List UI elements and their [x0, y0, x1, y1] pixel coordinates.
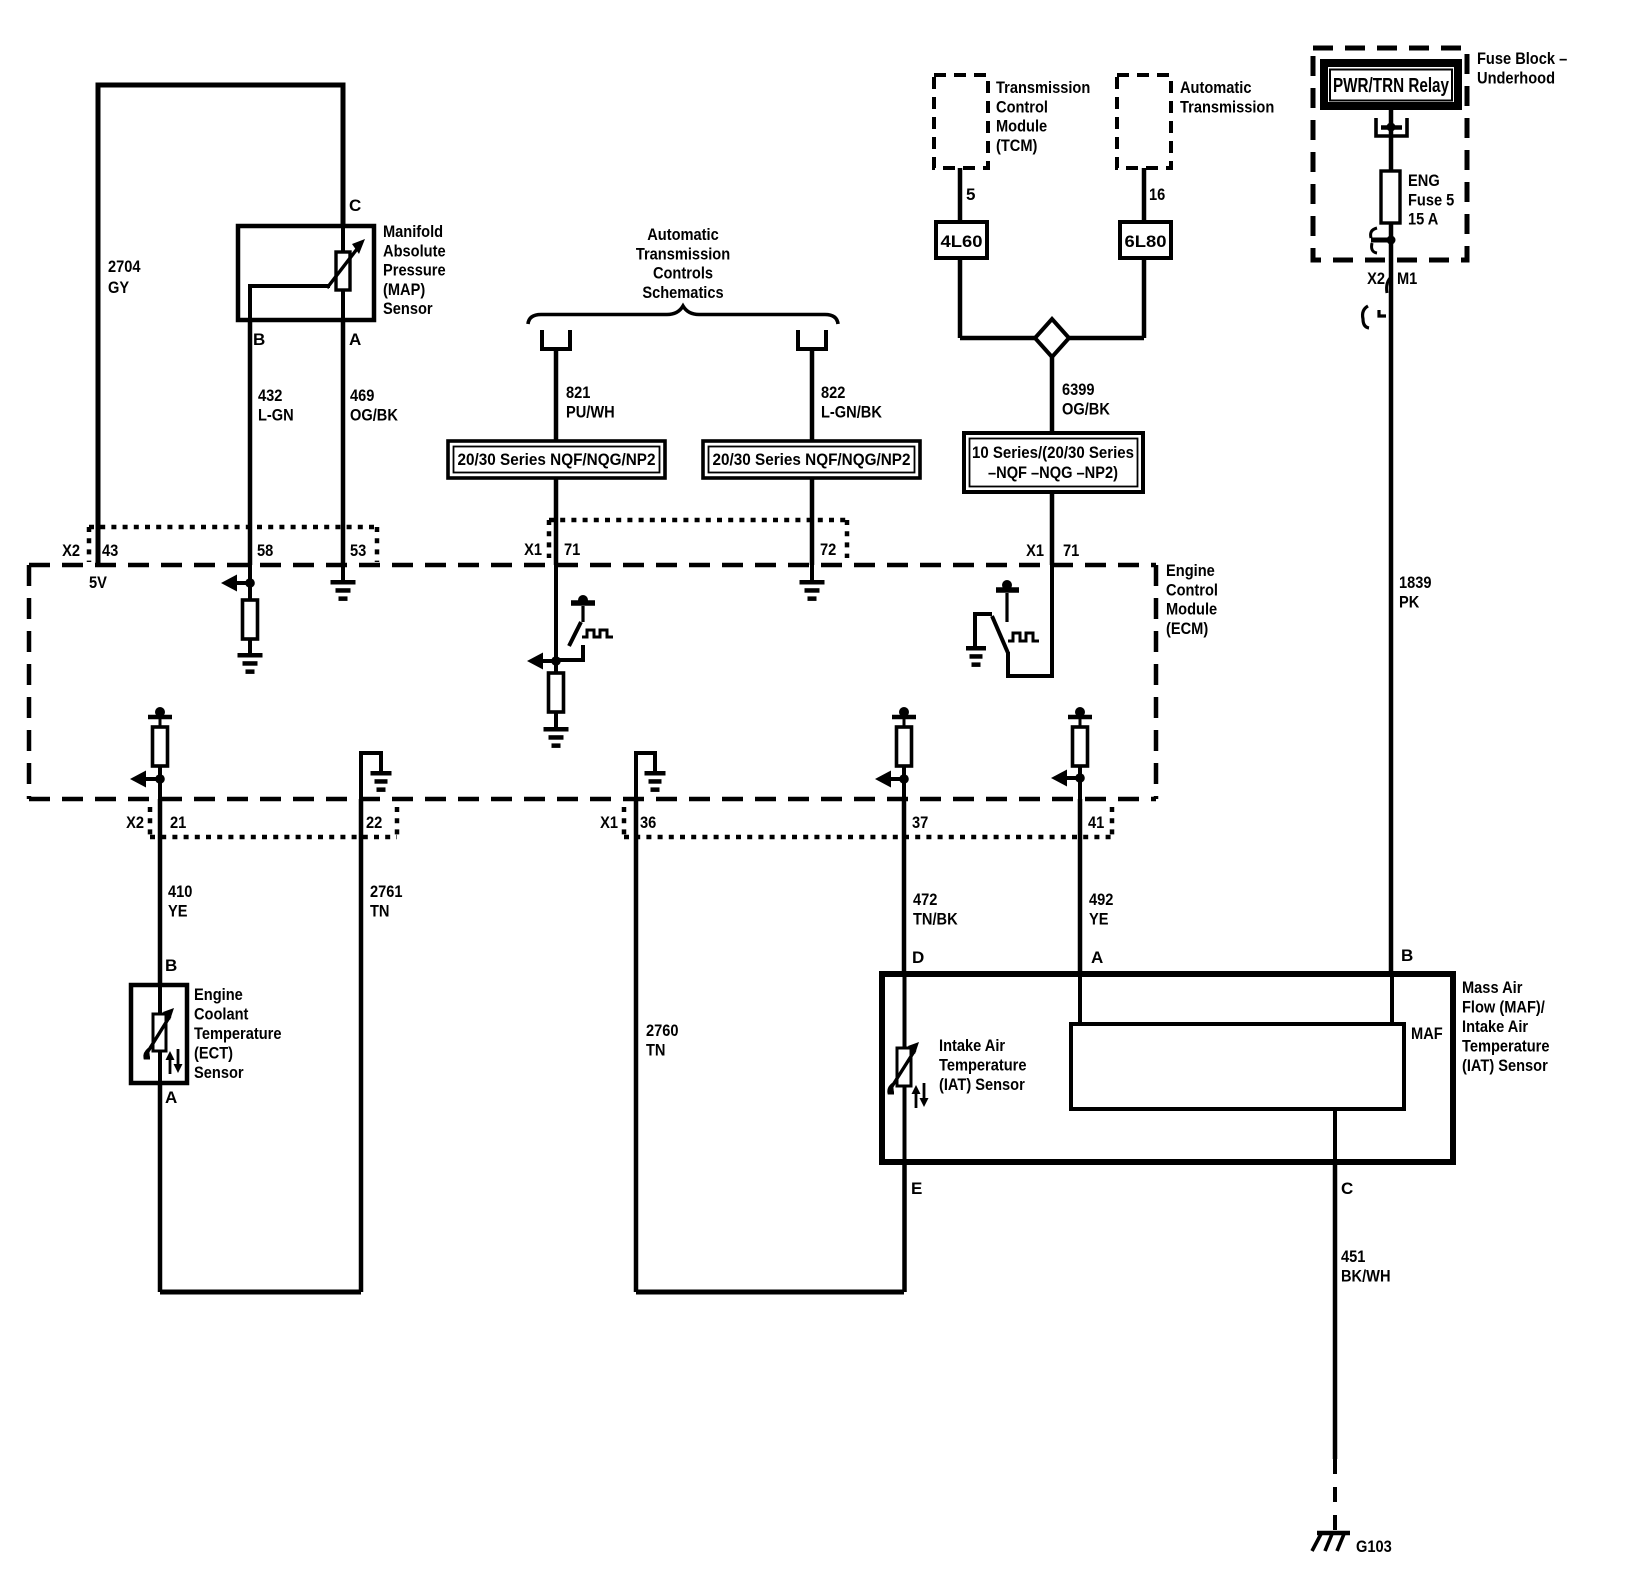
brace (to Automatic Transmission Controls Schematics): [528, 306, 838, 324]
wire resistor to junction (pin 37): [902, 766, 906, 799]
wire MAF E to loop bottom: [902, 1162, 907, 1292]
label Mass Air Flow (MAF)/ Intake Air Temperature (IAT) Sensor: [1462, 978, 1550, 1075]
wire ECT internal: [158, 985, 162, 1083]
connector mark (X2/M1): [1387, 276, 1392, 293]
label pin 5: [966, 185, 975, 204]
resistor (ECM pin 41): [1073, 727, 1088, 766]
wire MAF E internal: [903, 1086, 907, 1162]
svg-text:B: B: [165, 956, 177, 975]
svg-text:X2: X2: [1367, 269, 1385, 288]
wire 451 BK/WH dashed segment: [1333, 1459, 1337, 1532]
svg-text:822: 822: [821, 383, 845, 402]
wire ECM pin 58 internal: [248, 565, 252, 600]
svg-text:YE: YE: [168, 901, 188, 920]
label Fuse Block - Underhood: [1477, 49, 1567, 87]
label 472 TN/BK: [913, 890, 958, 928]
svg-text:TN/BK: TN/BK: [913, 909, 958, 928]
svg-text:(ECM): (ECM): [1166, 619, 1208, 638]
label X2 (top connector): [62, 541, 80, 560]
wire MAP pin B internal: [250, 286, 330, 320]
junction node (pin 21): [155, 774, 165, 784]
svg-text:36: 36: [640, 813, 656, 832]
svg-text:71: 71: [564, 540, 580, 559]
wire TCM pin 5 to 4L60: [958, 168, 963, 222]
ground hook (ECM pin 22): [361, 753, 381, 799]
svg-text:–NQF –NQG –NP2): –NQF –NQG –NP2): [988, 463, 1118, 482]
MAF/IAT sensor box: [882, 974, 1453, 1162]
wire fuse to X2-M1: [1389, 223, 1394, 973]
wire 410 YE (ECM X2-21 to ECT B): [158, 799, 163, 987]
svg-text:Transmission: Transmission: [1180, 97, 1274, 116]
svg-text:10 Series/(20/30 Series: 10 Series/(20/30 Series: [972, 443, 1134, 462]
wire ECM pin 53 internal: [341, 565, 345, 582]
label D (MAF pin): [912, 948, 924, 967]
junction node (pin 41): [1075, 773, 1085, 783]
svg-text:X1: X1: [524, 540, 542, 559]
svg-text:Intake Air: Intake Air: [939, 1036, 1005, 1055]
label ENG Fuse 5 15 A: [1408, 171, 1454, 229]
svg-text:X2: X2: [62, 541, 80, 560]
svg-text:BK/WH: BK/WH: [1341, 1266, 1391, 1285]
arrow to other circuits (pin 58): [221, 575, 250, 592]
thermistor (ECT sensor element): [145, 1008, 174, 1058]
off-page connector (wire 821): [542, 330, 570, 349]
arrow to other circuits (pin 21): [130, 771, 160, 788]
callout box 4L60: [936, 222, 987, 258]
wire resistor to ground (pin 71 left): [554, 712, 558, 728]
svg-text:A: A: [1091, 948, 1103, 967]
svg-text:Intake Air: Intake Air: [1462, 1017, 1528, 1036]
thermistor (MAP sensor element): [327, 239, 365, 290]
label 1839 PK: [1399, 573, 1432, 611]
in-line connector symbol (1839 PK): [1363, 306, 1386, 328]
svg-text:X2: X2: [126, 813, 144, 832]
switch blade (pin 71 right): [992, 616, 1008, 653]
svg-text:YE: YE: [1089, 909, 1109, 928]
resistor symbol top (pin 41): [1068, 707, 1092, 727]
label C (MAP pin): [349, 196, 361, 215]
label 451 BK/WH: [1341, 1247, 1391, 1285]
svg-text:Engine: Engine: [1166, 561, 1215, 580]
label pin 21: [170, 813, 186, 832]
TCM dashed box: [934, 75, 988, 168]
ground (ECM pin 72): [800, 580, 825, 601]
ground hook (ECM pin 36): [636, 753, 655, 799]
resistor symbol top (pin 37): [892, 707, 916, 727]
svg-text:6399: 6399: [1062, 380, 1095, 399]
arrow to other circuits (pin 37): [875, 771, 904, 788]
label Transmission Control Module (TCM): [996, 78, 1090, 155]
label 822 L-GN/BK: [821, 383, 883, 421]
switch contact bar (pin 71 left): [571, 595, 595, 622]
Automatic Transmission dashed box: [1117, 75, 1171, 168]
svg-text:(IAT) Sensor: (IAT) Sensor: [1462, 1056, 1548, 1075]
svg-text:Engine: Engine: [194, 985, 243, 1004]
label X2 M1 (fuse block connector): [1367, 269, 1417, 288]
label 2760 TN: [646, 1021, 679, 1059]
svg-text:5: 5: [966, 185, 975, 204]
arrow to other circuits (pin 41): [1051, 770, 1080, 787]
svg-text:(ECT): (ECT): [194, 1044, 233, 1063]
svg-text:2761: 2761: [370, 882, 403, 901]
svg-text:410: 410: [168, 882, 192, 901]
wire MAF C internal: [1333, 1109, 1337, 1162]
svg-text:GY: GY: [108, 278, 130, 297]
MAP sensor box: [238, 226, 374, 320]
svg-text:D: D: [912, 948, 924, 967]
wire 492 YE (ECM X1-41 to MAF A): [1078, 799, 1083, 973]
svg-text:53: 53: [350, 541, 366, 560]
svg-text:Pressure: Pressure: [383, 261, 446, 280]
svg-text:Automatic: Automatic: [1180, 78, 1252, 97]
svg-text:821: 821: [566, 383, 590, 402]
svg-text:PK: PK: [1399, 592, 1420, 611]
callout box 20/30 Series NQF/NQG/NP2 (right): [703, 441, 920, 478]
wire 2760 TN (ECM X1-36 down): [634, 799, 639, 1292]
svg-text:Automatic: Automatic: [647, 225, 719, 244]
label B (MAF pin): [1401, 946, 1413, 965]
connector socket (relay pin): [1376, 118, 1407, 136]
junction diamond: [1035, 319, 1069, 357]
svg-text:71: 71: [1063, 541, 1079, 560]
svg-text:PWR/TRN Relay: PWR/TRN Relay: [1333, 75, 1450, 97]
label A (MAF pin): [1091, 948, 1103, 967]
svg-text:Module: Module: [996, 117, 1047, 136]
label X1 (top connector): [524, 540, 542, 559]
label B (MAP pin): [253, 330, 265, 349]
svg-text:ENG: ENG: [1408, 171, 1440, 190]
svg-text:E: E: [911, 1179, 922, 1198]
callout box 6L80: [1120, 222, 1171, 258]
callout box 20/30 Series NQF/NQG/NP2 (left): [448, 441, 665, 478]
svg-text:L-GN: L-GN: [258, 405, 294, 424]
svg-text:20/30 Series NQF/NQG/NP2: 20/30 Series NQF/NQG/NP2: [713, 450, 911, 469]
svg-text:Mass Air: Mass Air: [1462, 978, 1523, 997]
connector X1 dotted line (pins 36/37/41): [624, 807, 1112, 837]
ground (ECM pin 71 left): [544, 727, 569, 748]
wire loop bottom (ECT return): [160, 1290, 361, 1295]
temperature arrows (IAT): [912, 1083, 929, 1108]
arrow to other circuits (pin 71 left): [527, 653, 556, 670]
svg-text:Sensor: Sensor: [383, 299, 433, 318]
label A (MAP pin): [349, 330, 361, 349]
label Engine Coolant Temperature (ECT) Sensor: [194, 985, 282, 1082]
svg-text:Temperature: Temperature: [1462, 1037, 1550, 1056]
switch contact bar (pin 71 right): [996, 580, 1019, 622]
label Intake Air Temperature (IAT) Sensor: [939, 1036, 1027, 1094]
svg-text:(TCM): (TCM): [996, 136, 1037, 155]
label X2 (bottom connector): [126, 813, 144, 832]
ground (ECM pin 22): [371, 771, 392, 792]
svg-text:72: 72: [820, 540, 836, 559]
wire 451 BK/WH (MAF C down): [1333, 1162, 1338, 1459]
switch blade (pin 71 left): [569, 622, 581, 646]
svg-text:C: C: [349, 196, 361, 215]
svg-text:432: 432: [258, 386, 282, 405]
svg-text:Absolute: Absolute: [383, 241, 446, 260]
svg-text:472: 472: [913, 890, 937, 909]
label X1 (bottom connector): [600, 813, 618, 832]
svg-text:Control: Control: [996, 97, 1048, 116]
svg-text:TN: TN: [646, 1040, 666, 1059]
ground (ECM pin 53): [331, 580, 356, 601]
svg-text:Sensor: Sensor: [194, 1063, 244, 1082]
temperature arrows (ECT): [166, 1049, 183, 1074]
wire ECM X1-71 internal: [554, 565, 558, 673]
svg-text:5V: 5V: [89, 573, 107, 592]
label X1 (right connector): [1026, 541, 1044, 560]
label 492 YE: [1089, 890, 1113, 928]
label pin 36: [640, 813, 656, 832]
connector X2 dotted line (pins 21/22): [150, 807, 397, 837]
wire 2761 TN (loop to ECM X2-22): [359, 799, 364, 1292]
svg-text:G103: G103: [1356, 1537, 1392, 1556]
PWM signal symbol (pin 71 right): [1008, 633, 1039, 641]
label pin 71 (right): [1063, 541, 1079, 560]
wire 6L80 leg: [1142, 258, 1147, 338]
ECM box top border: [29, 563, 1156, 568]
label 432 L-GN: [258, 386, 294, 424]
label 6399 OG/BK: [1062, 380, 1111, 418]
switch terminal (pin 71 left): [556, 645, 583, 660]
svg-text:2760: 2760: [646, 1021, 679, 1040]
label Automatic Transmission: [1180, 78, 1274, 116]
label pin 72 (top): [820, 540, 836, 559]
label pin 41: [1088, 813, 1104, 832]
label C (MAF pin): [1341, 1179, 1353, 1198]
svg-text:Temperature: Temperature: [194, 1024, 282, 1043]
ECT sensor box: [131, 985, 187, 1083]
svg-text:Module: Module: [1166, 600, 1217, 619]
svg-text:C: C: [1341, 1179, 1353, 1198]
junction node (pin 37): [899, 774, 909, 784]
junction node (pin 58): [245, 578, 255, 588]
svg-text:(IAT) Sensor: (IAT) Sensor: [939, 1075, 1025, 1094]
wire 2704 GY (5V reference, ECM X2-43 to MAP C): [98, 85, 343, 565]
svg-text:Coolant: Coolant: [194, 1005, 249, 1024]
label pin 22: [366, 813, 382, 832]
wire 472 TN/BK (ECM X1-37 to MAF D): [902, 799, 907, 973]
label pin 37: [912, 813, 928, 832]
svg-text:Temperature: Temperature: [939, 1056, 1027, 1075]
svg-text:X1: X1: [600, 813, 618, 832]
MAF module inner box: [1071, 1024, 1404, 1109]
label 5V: [89, 573, 107, 592]
svg-text:X1: X1: [1026, 541, 1044, 560]
wire MAP pin C internal: [341, 226, 345, 254]
svg-text:OG/BK: OG/BK: [350, 405, 399, 424]
svg-text:2704: 2704: [108, 257, 141, 276]
label MAF: [1411, 1024, 1443, 1043]
svg-text:Transmission: Transmission: [636, 244, 730, 263]
svg-text:20/30 Series NQF/NQG/NP2: 20/30 Series NQF/NQG/NP2: [458, 450, 656, 469]
wire resistor to junction (pin 21): [158, 766, 162, 799]
resistor (ECM pin 37): [897, 727, 912, 766]
label Engine Control Module (ECM): [1166, 561, 1218, 638]
wire MAP pin A internal: [341, 290, 345, 320]
switch ground leg (pin 71 right): [975, 614, 992, 647]
connector symbol (fuse output): [1371, 228, 1396, 253]
svg-text:B: B: [1401, 946, 1413, 965]
svg-text:L-GN/BK: L-GN/BK: [821, 402, 883, 421]
wire loop bottom (2760 to MAF E): [636, 1290, 904, 1295]
resistor symbol top (pin 21): [148, 707, 172, 727]
fuse ENG Fuse 5 15 A: [1381, 171, 1400, 223]
label A (ECT pin): [165, 1088, 177, 1107]
connector X2 dotted line (pins 43/58/53): [89, 527, 377, 562]
svg-text:Schematics: Schematics: [642, 283, 723, 302]
wire 822 L-GN/BK (to ECM X1-72): [810, 349, 815, 565]
label E (MAF pin): [911, 1179, 922, 1198]
wire relay output: [1389, 110, 1394, 171]
label pin 71 (top): [564, 540, 580, 559]
ground (ECM pin 58): [238, 653, 263, 674]
wire 821 PU/WH (to ECM X1-71): [554, 349, 559, 565]
label B (ECT pin): [165, 956, 177, 975]
resistor (ECM pin 21): [153, 727, 168, 766]
svg-text:Fuse 5: Fuse 5: [1408, 190, 1454, 209]
svg-text:4L60: 4L60: [941, 232, 983, 251]
label 410 YE: [168, 882, 192, 920]
label Manifold Absolute Pressure (MAP) Sensor: [383, 222, 446, 318]
junction node (pin 71 left): [551, 656, 561, 666]
svg-text:A: A: [165, 1088, 177, 1107]
svg-text:Fuse Block –: Fuse Block –: [1477, 49, 1567, 68]
label pin 43: [102, 541, 118, 560]
svg-text:B: B: [253, 330, 265, 349]
label 2761 TN: [370, 882, 403, 920]
ground (ECM pin 36): [645, 771, 666, 792]
relay PWR/TRN Relay: [1324, 63, 1458, 106]
label 469 OG/BK: [350, 386, 399, 424]
svg-text:Controls: Controls: [653, 264, 713, 283]
svg-text:6L80: 6L80: [1125, 232, 1167, 251]
svg-text:M1: M1: [1397, 269, 1417, 288]
svg-text:Underhood: Underhood: [1477, 68, 1555, 87]
PWM signal symbol (pin 71 left): [582, 630, 613, 637]
svg-text:Manifold: Manifold: [383, 222, 443, 241]
svg-text:469: 469: [350, 386, 374, 405]
label pin 58: [257, 541, 273, 560]
wire MAF D internal: [903, 974, 907, 1048]
svg-text:MAF: MAF: [1411, 1024, 1443, 1043]
svg-text:22: 22: [366, 813, 382, 832]
resistor (ECM pin 58): [243, 600, 258, 639]
wire 4L60 leg: [958, 258, 963, 338]
wire resistor to junction (pin 41): [1078, 766, 1082, 799]
svg-text:37: 37: [912, 813, 928, 832]
label G103: [1356, 1537, 1392, 1556]
wire AT pin 16 to 6L80: [1142, 168, 1147, 222]
wire ECM X1-71 right internal: [1008, 565, 1052, 676]
ground (ECM pin 71 right): [966, 646, 986, 667]
svg-text:15 A: 15 A: [1408, 210, 1438, 229]
svg-text:Flow (MAF)/: Flow (MAF)/: [1462, 998, 1545, 1017]
wire 432 L-GN (MAP B to ECM X2-58): [248, 320, 253, 565]
svg-text:A: A: [349, 330, 361, 349]
wire ECM pin 72 internal: [810, 565, 814, 581]
wire MAF A internal: [1078, 974, 1082, 1024]
svg-text:TN: TN: [370, 901, 390, 920]
ECM box right border: [1154, 565, 1159, 799]
Fuse Block - Underhood dashed box: [1313, 48, 1467, 260]
ECM box bottom border: [29, 797, 1156, 802]
label Automatic Transmission Controls Schematics: [636, 225, 730, 302]
wire resistor to ground (pin 58): [248, 639, 252, 654]
svg-text:16: 16: [1149, 185, 1165, 204]
svg-text:451: 451: [1341, 1247, 1365, 1266]
wire 6399 OG/BK (diamond to callout): [1050, 355, 1055, 435]
callout box 10 Series/(20/30 Series -NQF -NQG -NP2): [964, 433, 1143, 492]
svg-text:PU/WH: PU/WH: [566, 402, 615, 421]
svg-text:Control: Control: [1166, 580, 1218, 599]
ECM box left border: [27, 565, 32, 799]
wire 469 OG/BK (MAP A to ECM X2-53): [341, 320, 346, 565]
svg-text:58: 58: [257, 541, 273, 560]
svg-text:Transmission: Transmission: [996, 78, 1090, 97]
svg-text:43: 43: [102, 541, 118, 560]
resistor (ECM pin 71 left): [549, 673, 564, 712]
chassis ground G103: [1312, 1533, 1350, 1551]
svg-text:21: 21: [170, 813, 186, 832]
wire ECT A to loop bottom: [158, 1083, 163, 1292]
label pin 53: [350, 541, 366, 560]
thermistor (IAT sensor element): [889, 1042, 919, 1093]
svg-text:1839: 1839: [1399, 573, 1432, 592]
connector X1 dotted line (pins 71/72): [549, 520, 847, 558]
svg-text:41: 41: [1088, 813, 1104, 832]
off-page connector (wire 822): [798, 330, 826, 349]
label 2704 GY: [108, 257, 141, 297]
svg-text:OG/BK: OG/BK: [1062, 399, 1111, 418]
wire MAF B internal: [1390, 974, 1394, 1024]
wire 6399 OG/BK (callout to ECM X1-71): [1050, 492, 1055, 565]
label pin 16: [1149, 185, 1165, 204]
svg-text:492: 492: [1089, 890, 1113, 909]
wire junction bus (4L60/6L80 merge): [960, 336, 1144, 341]
label 821 PU/WH: [566, 383, 615, 421]
svg-text:(MAP): (MAP): [383, 280, 425, 299]
